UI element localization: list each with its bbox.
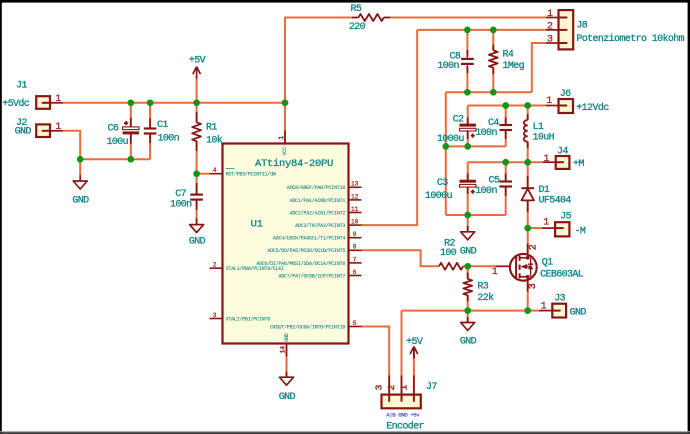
svg-text:1Meg: 1Meg <box>503 61 525 72</box>
wire +5V stem <box>196 76 198 103</box>
svg-text:R3: R3 <box>477 282 488 293</box>
wire C3 top lead <box>467 162 469 180</box>
svg-text:12: 12 <box>351 193 359 200</box>
wire D1 top lead <box>527 162 529 187</box>
svg-text:J6: J6 <box>560 89 571 100</box>
svg-text:ADC4/USCK/PA4SCL/T1/PCINT4: ADC4/USCK/PA4SCL/T1/PCINT4 <box>273 236 346 242</box>
junction J8 pin2 rail / C8 <box>464 27 471 34</box>
Q1 pin 3 label <box>528 283 539 289</box>
wire gnd C stem <box>467 311 469 323</box>
svg-text:+12Vdc: +12Vdc <box>576 102 609 114</box>
ground symbol R3 <box>460 323 477 348</box>
wire C7 top lead <box>196 174 198 194</box>
wire R1 top lead <box>196 103 198 123</box>
wire node to J5 <box>528 227 542 229</box>
wire C4 bottom lead <box>505 131 507 146</box>
svg-text:GND: GND <box>460 247 477 258</box>
wire C8 top lead <box>466 30 468 56</box>
Q1 pin 1 label <box>492 267 498 278</box>
svg-text:8: 8 <box>353 244 357 251</box>
svg-text:GND: GND <box>279 392 296 403</box>
junction riser / mid gnd rail <box>442 143 449 150</box>
resistor R5 <box>349 4 390 33</box>
ground symbol rail B <box>460 232 477 258</box>
svg-text:J5: J5 <box>560 211 571 222</box>
svg-text:ADC0/AREF/PA0/PCINT10: ADC0/AREF/PA0/PCINT10 <box>287 185 346 191</box>
label A|B GND +5v <box>386 412 420 419</box>
ground symbol U1 pin14 <box>279 377 296 403</box>
svg-text:-M: -M <box>575 226 586 237</box>
wire J2 gnd stem <box>79 159 81 181</box>
svg-text:C2: C2 <box>453 115 464 126</box>
svg-text:1: 1 <box>492 267 498 278</box>
wire gnd rail J2/C6/C1 <box>80 158 150 160</box>
power +5V symbol top <box>189 56 206 79</box>
svg-text:1: 1 <box>544 154 550 165</box>
connector J2 <box>15 118 63 138</box>
diode D1 <box>521 185 571 207</box>
Q1 pin 2 label <box>528 244 539 250</box>
junction +5V rail / VCC <box>282 99 289 106</box>
op-amp U1 ATtiny84 body <box>223 144 349 344</box>
wire C6 top lead <box>130 103 132 128</box>
wire gnd B stem <box>467 215 469 232</box>
junction C2 gnd rail <box>464 143 471 150</box>
svg-text:VCC: VCC <box>282 147 288 156</box>
wire C7 bottom lead <box>196 200 198 224</box>
wire Q1 source <box>527 281 529 310</box>
svg-text:Encoder: Encoder <box>386 421 424 433</box>
svg-text:2: 2 <box>528 244 539 250</box>
junction +M rail / C5 <box>502 159 509 166</box>
junction R4 gnd rail <box>490 89 497 96</box>
wire gate node to Q1 <box>468 265 496 267</box>
U1 refdes <box>251 218 263 230</box>
wire gnd riser x446 <box>445 92 447 215</box>
svg-text:XTAL2/PB1/PCINT9: XTAL2/PB1/PCINT9 <box>226 316 271 322</box>
U1 title <box>255 158 333 170</box>
wire L1 top lead <box>527 106 529 121</box>
svg-text:100n: 100n <box>170 200 192 211</box>
svg-text:22k: 22k <box>477 292 494 304</box>
resistor R3 <box>463 279 494 304</box>
junction gnd rail C / Q1 source <box>524 307 531 314</box>
junction +12V rail / C4 <box>502 102 509 109</box>
svg-text:100: 100 <box>440 248 457 259</box>
wire to R5 up and across <box>285 18 352 103</box>
resistor R2 <box>439 238 463 269</box>
svg-text:Q1: Q1 <box>542 258 553 269</box>
svg-text:2: 2 <box>547 21 553 32</box>
wire R5 to J8 pin1 <box>390 17 546 19</box>
svg-text:4: 4 <box>213 167 217 174</box>
wire R3 top lead <box>467 266 469 279</box>
junction gnd rail B / C3 <box>464 212 471 219</box>
connector J5 <box>542 211 586 237</box>
svg-text:+5V: +5V <box>406 337 423 348</box>
svg-text:1: 1 <box>547 9 553 20</box>
svg-text:C5: C5 <box>489 175 500 186</box>
capacitor C2 <box>437 115 476 145</box>
svg-text:1000u: 1000u <box>437 134 465 145</box>
svg-text:CKOUT/PB2/OC0A/INT0/PCINT10: CKOUT/PB2/OC0A/INT0/PCINT10 <box>270 324 345 330</box>
svg-text:C6: C6 <box>108 123 119 134</box>
wire C8 bottom lead <box>466 67 468 92</box>
junction gnd rail C / R3 <box>464 307 471 314</box>
resistor R4 <box>489 50 525 73</box>
svg-text:1: 1 <box>278 136 285 140</box>
svg-text:10uH: 10uH <box>533 132 555 143</box>
U1 right pins <box>256 181 361 331</box>
svg-text:CEB603AL: CEB603AL <box>540 270 584 281</box>
wire +M rail <box>468 161 543 163</box>
junction +5V rail / C6 <box>127 99 134 106</box>
capacitor C3 <box>425 178 476 202</box>
U1 pin 14 GND <box>280 333 290 356</box>
svg-text:1: 1 <box>546 96 552 107</box>
wire Q1 drain <box>527 228 529 253</box>
svg-text:10: 10 <box>351 219 359 226</box>
label Encoder <box>386 421 424 433</box>
connector J8 <box>546 9 685 49</box>
wire R4 bottom lead <box>492 68 494 93</box>
svg-text:Potenziometro 10kohm: Potenziometro 10kohm <box>576 33 684 45</box>
svg-text:A|B GND +5v: A|B GND +5v <box>386 412 420 419</box>
wire gnd rail B <box>446 214 506 216</box>
svg-text:ADC7/PA7/OC0B/ICP/PCINT7: ADC7/PA7/OC0B/ICP/PCINT7 <box>278 273 345 279</box>
wire J8 pin3 drop <box>532 43 546 92</box>
wire J8 pin2 rail <box>417 29 546 31</box>
wire pin10 riser <box>362 30 418 225</box>
svg-text:100n: 100n <box>475 128 497 139</box>
svg-text:U1: U1 <box>251 218 263 230</box>
capacitor C5 <box>475 175 512 197</box>
wire J2 to gnd corner <box>63 131 80 159</box>
svg-text:GND: GND <box>570 308 587 319</box>
svg-text:L1: L1 <box>533 122 544 133</box>
svg-text:13: 13 <box>351 181 359 188</box>
capacitor C1 <box>144 120 180 145</box>
capacitor C6 <box>107 121 140 148</box>
wire C5 top lead <box>505 162 507 181</box>
svg-text:R5: R5 <box>351 4 362 15</box>
wire Q1 gate stub <box>496 265 511 267</box>
wire R2 to gate node <box>463 265 468 267</box>
connector J3 <box>539 294 586 319</box>
svg-text:+5V: +5V <box>189 56 206 67</box>
wire R3 bottom lead <box>467 295 469 310</box>
svg-text:1: 1 <box>55 94 61 105</box>
wire +12V rail <box>468 105 546 107</box>
svg-text:9: 9 <box>353 231 357 238</box>
svg-text:J3: J3 <box>554 294 565 305</box>
svg-text:GND: GND <box>284 333 290 342</box>
ground symbol C7 <box>189 225 206 248</box>
svg-text:ADC3/T0/PA3/PCINT3: ADC3/T0/PA3/PCINT3 <box>295 223 345 229</box>
capacitor C4 <box>475 118 512 139</box>
svg-text:14: 14 <box>280 346 287 354</box>
junction gnd rail / C6 <box>127 156 134 163</box>
wire C1 top lead <box>149 103 151 128</box>
wire encoder pin2 drop <box>401 311 403 395</box>
wire C7 stem segments <box>196 219 198 225</box>
wire C4 top lead <box>505 106 507 125</box>
wire enc5V stem seg <box>413 347 415 359</box>
svg-text:D1: D1 <box>539 185 550 196</box>
wire pin14 stem seg <box>286 372 288 378</box>
connector J6 <box>546 89 609 114</box>
junction R1 / RST / C7 <box>193 170 200 177</box>
junction C8 gnd rail <box>464 89 471 96</box>
svg-text:J4: J4 <box>557 147 568 158</box>
wire pin14 gnd stem <box>286 344 288 378</box>
svg-text:3: 3 <box>547 35 553 46</box>
wire pin8 to R2 <box>362 250 440 266</box>
connector J4 <box>543 147 584 170</box>
svg-text:R4: R4 <box>503 50 514 61</box>
U1 pin 1 VCC <box>278 131 288 156</box>
svg-text:J8: J8 <box>576 20 587 31</box>
power +5V symbol encoder <box>406 337 423 359</box>
svg-text:220: 220 <box>349 22 366 33</box>
wire D1 bottom lead <box>527 200 529 228</box>
inductor L1 <box>524 120 555 143</box>
svg-text:100n: 100n <box>475 186 497 197</box>
ground symbol J2 <box>72 181 89 206</box>
junction +5V rail / C1 <box>147 99 154 106</box>
U1 RST overbar <box>226 168 235 170</box>
junction +5V rail / R1 <box>193 99 200 106</box>
wire C3 bottom lead <box>467 187 469 215</box>
svg-text:+5Vdc: +5Vdc <box>2 98 30 110</box>
wire pin5 to encoder pin3 <box>362 327 390 395</box>
wire C6 bottom lead <box>130 134 132 159</box>
wire encoder +5V stem <box>413 355 415 395</box>
svg-text:C3: C3 <box>437 178 448 189</box>
svg-text:100u: 100u <box>107 137 129 148</box>
wire gndB stem seg <box>467 226 469 232</box>
junction J8 pin2 rail / R4 <box>490 27 497 34</box>
wire gnd rail C <box>402 310 529 312</box>
svg-text:XTAL1/PB0/PCINT8/CLKI: XTAL1/PB0/PCINT8/CLKI <box>226 266 285 272</box>
svg-text:100n: 100n <box>158 134 180 145</box>
svg-text:C1: C1 <box>157 120 168 131</box>
svg-text:ADC5/DO/PA5/MISO/OC1B/PCINT5: ADC5/DO/PA5/MISO/OC1B/PCINT5 <box>267 248 345 254</box>
wire R4 top lead <box>492 30 494 51</box>
wire C5 bottom lead <box>505 188 507 216</box>
wire gndC stem seg <box>467 317 469 323</box>
junction gate node R2/R3 <box>464 263 471 270</box>
transistor Q1 <box>510 254 584 282</box>
svg-text:1: 1 <box>541 302 547 313</box>
junction J2 gnd <box>77 156 84 163</box>
svg-text:1000u: 1000u <box>425 191 453 202</box>
wire C1 bottom riser <box>149 134 151 159</box>
wire rail A gnd mid <box>446 145 506 147</box>
wire VCC drop <box>284 103 286 144</box>
svg-text:1: 1 <box>543 217 549 228</box>
junction +M rail / L1 / D1 <box>524 159 531 166</box>
svg-text:3: 3 <box>213 312 217 319</box>
svg-text:2: 2 <box>213 262 217 269</box>
svg-text:+M: +M <box>573 159 584 170</box>
svg-text:R1: R1 <box>206 123 217 134</box>
svg-text:7: 7 <box>353 256 357 263</box>
wire node to pin4 <box>197 173 210 175</box>
svg-text:J7: J7 <box>426 382 437 393</box>
svg-text:3: 3 <box>528 283 539 289</box>
wire rail C to J3 <box>528 310 539 312</box>
wire C8/R4 bottom rail <box>446 91 532 93</box>
wire L1 bottom lead <box>527 142 529 163</box>
wire C2 bottom lead <box>467 131 469 147</box>
svg-text:GND: GND <box>460 337 477 348</box>
svg-text:ATtiny84-20PU: ATtiny84-20PU <box>255 158 333 170</box>
svg-text:GND: GND <box>15 127 32 138</box>
svg-text:10k: 10k <box>206 135 223 147</box>
svg-text:100n: 100n <box>437 61 459 72</box>
svg-text:1: 1 <box>55 122 61 133</box>
junction +12V rail / L1 <box>524 102 531 109</box>
capacitor C7 <box>170 189 203 210</box>
svg-text:RST/PB3/PCINT11/dW: RST/PB3/PCINT11/dW <box>226 172 276 178</box>
junction -M node / D1 / Q1 drain <box>524 225 531 232</box>
svg-text:GND: GND <box>72 195 89 206</box>
svg-text:6: 6 <box>353 269 357 276</box>
component lead segments <box>131 45 528 302</box>
U1 left pins <box>210 167 285 322</box>
svg-text:J1: J1 <box>16 80 27 91</box>
wire R1 bottom to node <box>196 141 198 174</box>
connector J7 Encoder <box>374 375 438 408</box>
svg-text:GND: GND <box>189 237 206 248</box>
svg-text:UF5404: UF5404 <box>539 196 572 207</box>
wire +5V rail from J1 <box>63 102 285 104</box>
connector J1 <box>2 80 63 110</box>
wire C2 top lead <box>467 106 469 125</box>
svg-text:C7: C7 <box>175 189 186 200</box>
svg-text:5: 5 <box>353 320 357 327</box>
svg-text:ADC2/PA2/AIN1/PCINT2: ADC2/PA2/AIN1/PCINT2 <box>290 210 346 216</box>
capacitor C8 <box>437 52 473 72</box>
svg-text:ADC1/PA1/AIN0/PCINT1: ADC1/PA1/AIN0/PCINT1 <box>290 198 346 204</box>
resistor R1 <box>192 122 223 146</box>
svg-text:11: 11 <box>351 206 359 213</box>
